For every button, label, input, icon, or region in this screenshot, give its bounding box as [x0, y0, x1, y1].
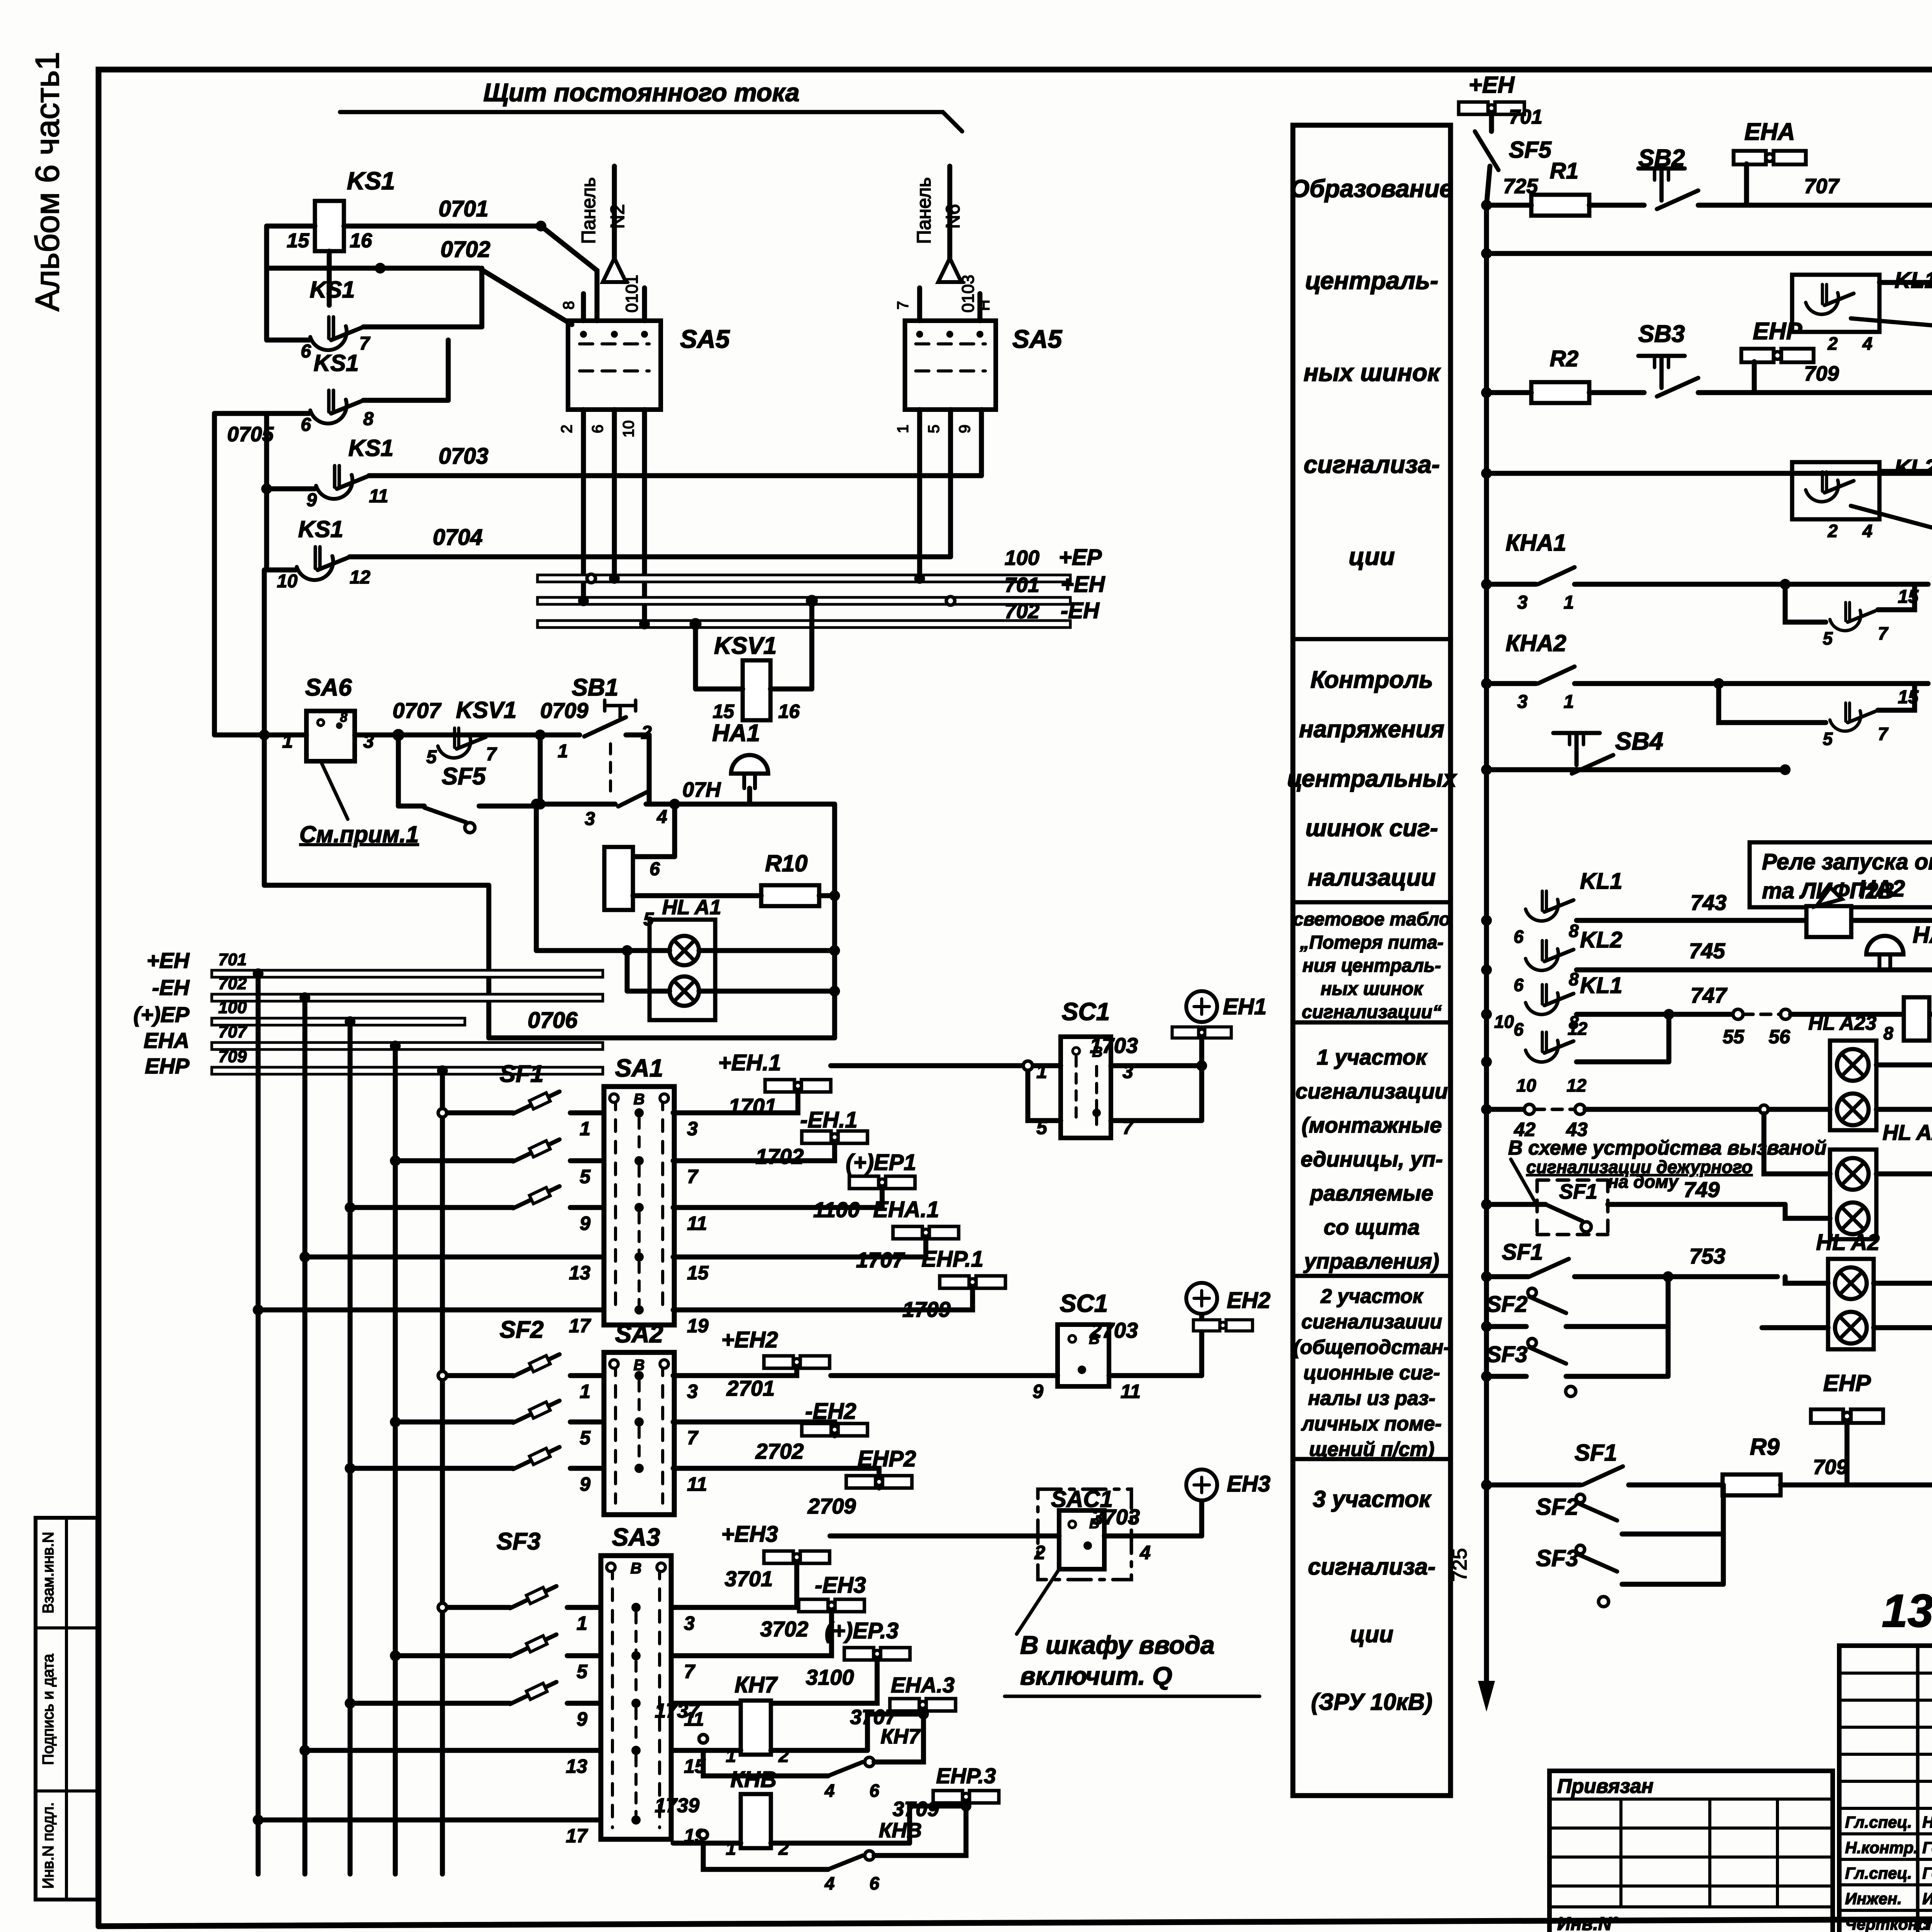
svg-text:KS1: KS1 [314, 350, 359, 376]
svg-text:KSV1: KSV1 [456, 697, 517, 723]
svg-text:8: 8 [363, 409, 374, 429]
svg-text:+ЕН3: +ЕН3 [721, 1522, 778, 1547]
svg-text:5: 5 [1823, 729, 1833, 749]
svg-text:сигнализации: сигнализации [1296, 1079, 1448, 1103]
svg-text:19: 19 [687, 1315, 709, 1337]
svg-text:R2: R2 [1550, 346, 1578, 371]
svg-text:15: 15 [287, 230, 310, 252]
svg-text:725: 725 [1449, 1548, 1471, 1582]
svg-text:6: 6 [1514, 927, 1524, 947]
svg-text:SF3: SF3 [497, 1528, 541, 1555]
svg-text:KL1: KL1 [1580, 869, 1622, 894]
svg-text:10: 10 [277, 571, 298, 592]
svg-text:1709: 1709 [902, 1297, 951, 1321]
svg-text:KL2: KL2 [1580, 927, 1622, 952]
svg-text:ЕНР: ЕНР [145, 1054, 190, 1078]
svg-text:2703: 2703 [1089, 1318, 1138, 1342]
svg-text:5: 5 [577, 1661, 588, 1682]
svg-text:3: 3 [684, 1612, 695, 1634]
svg-text:0701: 0701 [439, 196, 488, 221]
svg-text:Горелик: Горелик [1922, 1838, 1932, 1857]
svg-text:HL A1: HL A1 [662, 896, 721, 919]
svg-text:ЕН2: ЕН2 [1227, 1288, 1270, 1313]
svg-text:55: 55 [1723, 1026, 1745, 1048]
svg-text:16: 16 [778, 701, 800, 722]
svg-text:13276: 13276 [1882, 1585, 1932, 1637]
svg-text:+ЕН: +ЕН [1061, 572, 1105, 597]
svg-text:КНВ: КНВ [730, 1767, 776, 1792]
svg-text:4: 4 [1862, 333, 1872, 354]
svg-text:SF2: SF2 [500, 1316, 544, 1343]
svg-text:1: 1 [558, 741, 568, 762]
svg-text:1: 1 [1564, 592, 1574, 613]
svg-text:16: 16 [350, 230, 372, 252]
svg-text:7: 7 [684, 1661, 696, 1682]
svg-text:17: 17 [566, 1825, 588, 1847]
svg-text:743: 743 [1690, 890, 1726, 915]
svg-text:Н: Н [976, 300, 993, 311]
svg-text:9: 9 [956, 425, 973, 433]
svg-text:745: 745 [1689, 939, 1725, 963]
svg-text:КН7: КН7 [735, 1672, 778, 1697]
svg-text:13: 13 [566, 1755, 587, 1777]
svg-text:0706: 0706 [527, 1008, 578, 1033]
svg-text:3: 3 [1517, 692, 1528, 712]
svg-text:2: 2 [1827, 333, 1838, 354]
svg-text:R1: R1 [1550, 158, 1578, 184]
svg-text:равляемые: равляемые [1310, 1181, 1434, 1205]
svg-text:Инжен.: Инжен. [1845, 1889, 1902, 1908]
svg-text:1: 1 [577, 1612, 587, 1634]
svg-text:5: 5 [580, 1427, 591, 1449]
svg-text:В: В [631, 1560, 642, 1577]
svg-text:747: 747 [1690, 983, 1728, 1007]
svg-text:Иванова: Иванова [1922, 1889, 1932, 1908]
svg-text:3702: 3702 [760, 1617, 808, 1641]
svg-text:В шкафу ввода: В шкафу ввода [1020, 1631, 1214, 1659]
svg-text:1: 1 [1564, 692, 1574, 712]
svg-text:Образование: Образование [1290, 175, 1453, 202]
svg-text:1703: 1703 [1090, 1033, 1138, 1058]
svg-text:6: 6 [869, 1781, 879, 1801]
svg-text:KS1: KS1 [298, 516, 344, 542]
svg-text:3: 3 [1517, 592, 1528, 613]
svg-text:Тимофеева: Тимофеева [1922, 1915, 1932, 1932]
svg-text:0709: 0709 [540, 698, 588, 723]
svg-text:(ЗРУ 10кВ): (ЗРУ 10кВ) [1311, 1689, 1432, 1715]
svg-text:17: 17 [569, 1315, 591, 1337]
svg-text:КНА1: КНА1 [1506, 530, 1566, 556]
svg-text:(монтажные: (монтажные [1301, 1113, 1442, 1137]
svg-text:7: 7 [687, 1427, 699, 1449]
svg-text:HL A20: HL A20 [1883, 1120, 1932, 1145]
svg-text:2: 2 [1034, 1542, 1045, 1563]
svg-text:2: 2 [558, 425, 575, 433]
svg-text:сигнализа-: сигнализа- [1304, 451, 1440, 478]
svg-text:701: 701 [1005, 573, 1039, 597]
svg-text:Инв.N подл.: Инв.N подл. [40, 1802, 57, 1889]
svg-text:3703: 3703 [1092, 1505, 1140, 1529]
svg-text:15: 15 [713, 701, 735, 722]
svg-text:сигнализаиии: сигнализаиии [1301, 1311, 1442, 1333]
svg-text:ных шинок: ных шинок [1321, 979, 1424, 999]
svg-text:Подпись и дата: Подпись и дата [40, 1653, 57, 1765]
svg-text:ных шинок: ных шинок [1304, 359, 1441, 386]
svg-text:2709: 2709 [807, 1494, 856, 1518]
svg-text:щений п/ст): щений п/ст) [1309, 1438, 1434, 1461]
svg-text:со щита: со щита [1324, 1215, 1420, 1239]
svg-text:709: 709 [1813, 1456, 1848, 1479]
svg-text:3100: 3100 [806, 1665, 854, 1689]
svg-text:HL A2: HL A2 [1816, 1230, 1879, 1255]
svg-text:Панель: Панель [913, 177, 935, 244]
svg-text:N2: N2 [607, 204, 628, 229]
svg-text:на дому: на дому [1608, 1172, 1679, 1192]
svg-text:(+)ЕР.3: (+)ЕР.3 [825, 1618, 899, 1643]
svg-text:R10: R10 [765, 850, 808, 876]
svg-text:4: 4 [1139, 1542, 1151, 1563]
svg-text:Альбом 6 часть1: Альбом 6 часть1 [29, 52, 66, 311]
svg-text:1: 1 [580, 1381, 590, 1402]
svg-text:1100: 1100 [813, 1197, 860, 1222]
svg-text:централь-: централь- [1305, 267, 1439, 294]
svg-text:В схеме устройства вызваной: В схеме устройства вызваной [1508, 1137, 1827, 1159]
svg-text:ЕНР: ЕНР [1823, 1370, 1871, 1396]
svg-text:ЕНА.3: ЕНА.3 [891, 1673, 955, 1697]
svg-text:включит. Q: включит. Q [1020, 1662, 1172, 1690]
svg-text:ния централь-: ния централь- [1303, 956, 1441, 976]
svg-text:сигнализации“: сигнализации“ [1302, 1002, 1442, 1022]
svg-text:709: 709 [1804, 362, 1839, 385]
svg-text:4: 4 [656, 807, 667, 827]
svg-text:6: 6 [301, 341, 311, 362]
svg-text:SF1: SF1 [500, 1061, 544, 1087]
svg-text:Чертконст.: Чертконст. [1845, 1915, 1932, 1932]
svg-text:4: 4 [824, 1873, 835, 1893]
svg-text:ционные сиг-: ционные сиг- [1303, 1362, 1440, 1384]
svg-text:нализации: нализации [1308, 864, 1435, 891]
svg-text:единицы, уп-: единицы, уп- [1301, 1147, 1443, 1171]
svg-text:Привязан: Привязан [1557, 1775, 1653, 1798]
svg-text:8: 8 [1883, 1023, 1893, 1043]
svg-text:3: 3 [585, 809, 595, 829]
svg-text:-ЕН2: -ЕН2 [805, 1399, 856, 1424]
svg-text:9: 9 [580, 1473, 590, 1495]
svg-text:1: 1 [580, 1118, 590, 1139]
svg-text:ЕНА: ЕНА [144, 1028, 189, 1053]
svg-text:ЕНР.1: ЕНР.1 [922, 1247, 983, 1272]
svg-text:„Потеря пита-: „Потеря пита- [1299, 932, 1444, 953]
svg-text:KSV1: KSV1 [714, 633, 777, 659]
svg-text:9: 9 [580, 1213, 590, 1234]
svg-text:Взам.инв.N: Взам.инв.N [40, 1532, 57, 1614]
svg-text:личных поме-: личных поме- [1301, 1413, 1442, 1435]
svg-text:KL1: KL1 [1580, 973, 1622, 998]
svg-text:SF1: SF1 [1502, 1240, 1543, 1265]
svg-text:702: 702 [1005, 600, 1039, 623]
svg-text:(+)ЕР1: (+)ЕР1 [846, 1150, 916, 1175]
svg-text:10: 10 [620, 420, 637, 438]
svg-text:5: 5 [580, 1166, 591, 1187]
svg-text:SA6: SA6 [305, 674, 352, 701]
svg-text:SB3: SB3 [1638, 321, 1685, 347]
svg-text:11: 11 [687, 1213, 707, 1234]
svg-text:11: 11 [687, 1473, 707, 1495]
svg-text:+ЕН: +ЕН [1469, 72, 1515, 98]
svg-text:ции: ции [1350, 1621, 1393, 1647]
svg-text:КНА2: КНА2 [1506, 630, 1566, 656]
svg-text:SA5: SA5 [680, 325, 730, 353]
svg-text:Панель: Панель [578, 177, 599, 244]
svg-text:(+)ЕР: (+)ЕР [133, 1002, 189, 1027]
svg-text:KS1: KS1 [349, 435, 394, 461]
svg-text:56: 56 [1769, 1026, 1791, 1048]
svg-text:5: 5 [426, 747, 437, 767]
svg-text:-ЕН.1: -ЕН.1 [800, 1107, 857, 1133]
svg-text:701: 701 [1509, 106, 1543, 128]
svg-text:7: 7 [687, 1166, 699, 1187]
svg-text:1739: 1739 [655, 1794, 699, 1817]
svg-text:В: В [634, 1091, 645, 1108]
svg-text:12: 12 [1568, 1019, 1588, 1039]
svg-text:15: 15 [687, 1262, 709, 1284]
svg-text:ЕНА: ЕНА [1745, 119, 1795, 145]
svg-text:10: 10 [1516, 1075, 1536, 1095]
svg-text:6: 6 [869, 1873, 879, 1893]
svg-text:ЕН1: ЕН1 [1223, 994, 1267, 1019]
svg-text:SA2: SA2 [615, 1320, 663, 1348]
svg-text:1: 1 [895, 425, 912, 433]
svg-text:6: 6 [1514, 1019, 1524, 1039]
svg-text:SF2: SF2 [1486, 1292, 1527, 1317]
svg-text:управления): управления) [1303, 1249, 1439, 1273]
svg-text:SA3: SA3 [612, 1523, 660, 1551]
svg-text:11: 11 [1121, 1381, 1141, 1402]
svg-text:2: 2 [1827, 521, 1838, 541]
svg-text:11: 11 [369, 486, 388, 507]
svg-text:KS1: KS1 [347, 167, 395, 195]
svg-text:ЕНР: ЕНР [1753, 318, 1802, 345]
svg-text:1707: 1707 [856, 1248, 905, 1272]
svg-text:0703: 0703 [439, 444, 488, 469]
svg-text:+ЕР: +ЕР [1059, 545, 1102, 570]
svg-text:напряжения: напряжения [1299, 716, 1444, 743]
svg-text:(общеподстан-: (общеподстан- [1293, 1336, 1450, 1359]
svg-text:R9: R9 [1750, 1434, 1780, 1460]
svg-text:1 участок: 1 участок [1317, 1045, 1428, 1069]
svg-text:6: 6 [650, 859, 660, 879]
svg-text:КН7: КН7 [881, 1725, 921, 1748]
svg-text:Никитин: Никитин [1922, 1813, 1932, 1831]
svg-text:-ЕН: -ЕН [1061, 598, 1100, 623]
svg-text:SB4: SB4 [1615, 727, 1663, 755]
svg-text:SC1: SC1 [1060, 1289, 1108, 1317]
svg-text:Инв.N°: Инв.N° [1557, 1914, 1619, 1932]
svg-text:-ЕН: -ЕН [152, 975, 190, 1000]
svg-text:КНВ: КНВ [879, 1819, 922, 1842]
svg-text:-ЕН3: -ЕН3 [815, 1573, 866, 1598]
svg-text:налы из раз-: налы из раз- [1308, 1387, 1435, 1410]
svg-text:SF1: SF1 [1575, 1440, 1617, 1466]
svg-text:SF3: SF3 [1486, 1342, 1527, 1367]
svg-text:ЕН3: ЕН3 [1227, 1471, 1270, 1497]
svg-text:SB1: SB1 [572, 674, 619, 701]
svg-text:0103: 0103 [959, 275, 978, 313]
svg-text:N6: N6 [942, 204, 964, 229]
svg-text:SA1: SA1 [615, 1054, 663, 1082]
svg-text:шинок сиг-: шинок сиг- [1305, 815, 1438, 842]
svg-text:1737: 1737 [655, 1700, 700, 1722]
svg-text:KL2: KL2 [1895, 455, 1932, 480]
svg-text:0707: 0707 [393, 698, 442, 723]
svg-text:7: 7 [1878, 724, 1889, 744]
svg-text:Горелик: Горелик [1922, 1864, 1932, 1882]
svg-text:12: 12 [1566, 1075, 1587, 1095]
svg-text:2702: 2702 [755, 1439, 804, 1463]
svg-text:8: 8 [1569, 921, 1579, 941]
svg-text:6: 6 [1514, 975, 1524, 995]
svg-text:3709: 3709 [893, 1798, 939, 1821]
svg-text:9: 9 [306, 490, 317, 510]
svg-text:7: 7 [1878, 623, 1889, 643]
svg-text:3: 3 [687, 1118, 698, 1139]
svg-text:10: 10 [1494, 1012, 1514, 1032]
svg-text:753: 753 [1689, 1244, 1725, 1268]
svg-text:100: 100 [1005, 546, 1039, 570]
svg-text:SF1: SF1 [1559, 1180, 1597, 1203]
svg-text:Контроль: Контроль [1310, 667, 1433, 693]
svg-text:1: 1 [1036, 1061, 1047, 1082]
svg-text:6: 6 [301, 415, 311, 435]
svg-text:НА4: НА4 [1913, 922, 1932, 948]
svg-text:Реле запуска отсче-: Реле запуска отсче- [1762, 849, 1932, 874]
svg-text:SF5: SF5 [442, 763, 486, 790]
svg-text:+ЕН2: +ЕН2 [721, 1327, 778, 1352]
svg-text:9: 9 [577, 1708, 587, 1730]
svg-text:НА2: НА2 [1859, 876, 1905, 901]
svg-text:701: 701 [218, 950, 247, 969]
svg-text:5: 5 [1823, 628, 1833, 648]
svg-text:сигнализа-: сигнализа- [1308, 1554, 1435, 1580]
svg-text:4: 4 [824, 1781, 835, 1801]
svg-text:7: 7 [359, 333, 371, 354]
svg-text:07Н: 07Н [682, 778, 721, 801]
svg-text:KS1: KS1 [310, 277, 355, 303]
svg-text:13: 13 [569, 1262, 590, 1284]
svg-text:3 участок: 3 участок [1313, 1486, 1432, 1512]
svg-text:SF2: SF2 [1536, 1494, 1578, 1520]
svg-text:SA5: SA5 [1012, 325, 1063, 353]
svg-text:6: 6 [589, 425, 606, 433]
svg-text:0702: 0702 [440, 237, 490, 262]
svg-text:0101: 0101 [622, 275, 641, 313]
svg-text:7: 7 [895, 301, 912, 310]
svg-text:3: 3 [687, 1381, 698, 1402]
svg-text:707: 707 [1804, 175, 1840, 198]
svg-text:SC1: SC1 [1062, 998, 1110, 1026]
svg-text:7: 7 [486, 744, 497, 765]
svg-text:ЕНР.3: ЕНР.3 [936, 1764, 996, 1788]
svg-text:+ЕН.1: +ЕН.1 [718, 1050, 781, 1075]
svg-text:3701: 3701 [724, 1566, 773, 1591]
svg-text:Гл.спец.: Гл.спец. [1845, 1864, 1912, 1882]
svg-text:8: 8 [560, 301, 577, 310]
svg-text:SF5: SF5 [1509, 137, 1552, 163]
svg-text:2701: 2701 [726, 1376, 775, 1400]
svg-text:5: 5 [925, 425, 942, 433]
svg-text:12: 12 [350, 567, 371, 588]
svg-text:2 участок: 2 участок [1320, 1285, 1424, 1308]
svg-text:1701: 1701 [728, 1094, 777, 1118]
svg-text:Щит постоянного тока: Щит постоянного тока [483, 78, 799, 107]
svg-text:центральных: центральных [1287, 765, 1458, 792]
svg-text:749: 749 [1684, 1177, 1719, 1202]
svg-text:9: 9 [1032, 1381, 1043, 1402]
svg-text:1702: 1702 [755, 1144, 804, 1168]
svg-text:HA1: HA1 [712, 720, 760, 747]
svg-text:ции: ции [1349, 543, 1395, 570]
svg-text:Гл.спец.: Гл.спец. [1845, 1813, 1912, 1831]
svg-text:8: 8 [340, 710, 347, 725]
svg-text:+ЕН: +ЕН [147, 948, 190, 973]
svg-text:ЕНА.1: ЕНА.1 [873, 1197, 939, 1222]
svg-text:Н.контр.: Н.контр. [1845, 1838, 1918, 1857]
svg-text:0704: 0704 [433, 525, 483, 550]
svg-text:ЕНР2: ЕНР2 [857, 1446, 916, 1471]
svg-text:SF3: SF3 [1536, 1545, 1578, 1571]
svg-text:См.прим.1: См.прим.1 [299, 821, 419, 847]
svg-text:световое табло: световое табло [1293, 909, 1451, 930]
svg-text:4: 4 [1862, 521, 1872, 541]
